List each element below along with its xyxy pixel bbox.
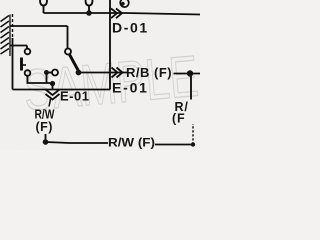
wire bottom bus right [155,144,193,146]
switch pivot dot [76,70,82,76]
wire feed to left contact [47,72,53,74]
wire right branch upper [190,76,192,100]
relay plunger [20,58,23,71]
svg-text:(F: (F [172,112,185,126]
wire top bus [44,13,201,15]
node corner bottom right [191,142,195,146]
node junction ground [50,81,55,86]
wire R/B to junction [174,73,201,75]
connector chevrons D-01 [111,9,122,19]
wire T2 stem [88,6,90,14]
svg-text:(F): (F) [36,120,53,134]
svg-text:E-01: E-01 [112,80,149,96]
connector terminal cup T1 [40,0,47,6]
wire lower contact to ground run [28,77,53,84]
relay box bottom edge [13,89,111,91]
node junction right [187,70,193,76]
relay box right edge [109,0,111,90]
node junction bottom left [43,139,49,145]
wire T1 stem [43,6,45,14]
connector chevrons E-01 right [112,68,123,78]
wire ground drop [52,84,54,91]
svg-text:R/B (F): R/B (F) [126,65,172,80]
ground connector chevrons E-01 [46,90,60,100]
wire R/W stub [45,134,47,142]
harness edge bar [9,15,11,57]
wire bottom riser dashed [192,124,194,145]
harness hatch marks [1,16,10,55]
switch left contact [52,70,58,76]
circled pin letter [120,0,129,7]
switch top contact [65,49,71,55]
relay contact lower [25,70,31,76]
svg-text:D-01: D-01 [112,20,149,36]
relay contact upper [25,49,31,55]
node junction top [86,10,92,16]
wire B from edge to relay contact [10,46,27,49]
wire pivot to connector [81,72,127,74]
node junction switch feed [44,70,49,75]
wire junction drop [46,73,48,84]
wire ground stem [49,99,51,107]
wire A from edge to switch top [10,26,68,48]
svg-text:E-01: E-01 [60,89,89,104]
relay box left edge [12,14,14,38]
wire bottom bus left [46,142,109,143]
switch lever [70,55,79,72]
connector terminal cup T2 [86,0,93,6]
svg-text:R/W (F): R/W (F) [108,136,155,150]
